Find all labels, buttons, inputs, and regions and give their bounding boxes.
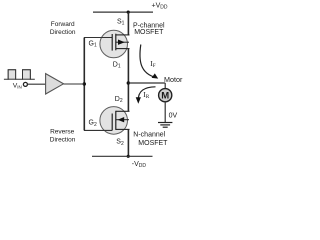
wire gate lead G2 [84,129,112,131]
wire S2 to bottom rail [127,129,129,156]
svg-text:S1: S1 [117,18,125,26]
wire motor branch vertical [164,83,166,89]
node junction dot gate bus [83,82,86,85]
transistor Q2 source stub [116,128,130,130]
op-amp driver buffer U1 [46,74,64,94]
svg-text:N-channel: N-channel [133,132,165,139]
wire gate bus vertical [83,38,85,131]
svg-text:0V: 0V [169,113,178,120]
transistor Q2 drain stub [116,110,130,112]
transistor Q1 substrate stub with P-channel arrow [116,41,129,43]
svg-text:Reverse: Reverse [50,128,75,135]
motor M1 [159,89,172,102]
wire motor branch horizontal [128,82,165,84]
transistor Q2 channel bar [115,111,117,130]
node junction dot on -VDD rail [127,155,130,158]
svg-text:G2: G2 [89,120,97,128]
svg-text:-VDD: -VDD [132,161,147,169]
svg-text:+VDD: +VDD [152,2,168,10]
input square wave signal [4,70,35,79]
svg-text:MOSFET: MOSFET [134,29,164,36]
node junction dot motor tap [127,81,130,84]
input terminal VIN [23,82,27,86]
wire S1 from rail to Q1 source [127,12,129,35]
current arrow IF forward [140,45,156,78]
svg-text:Forward: Forward [51,21,75,28]
transistor Q1 channel bar [115,34,117,51]
node junction dot on +VDD rail [127,11,130,14]
wire driver output to gate bus [64,83,85,85]
wire drain bus D1 to D2 [127,49,129,112]
transistor Q2 gate bar [111,114,113,131]
svg-text:Direction: Direction [50,29,76,36]
wire input to driver [28,83,46,85]
wire -VDD bottom rail [92,155,153,157]
svg-text:D2: D2 [115,96,123,104]
transistor Q1 source stub [116,34,130,36]
transistor Q2 N-channel MOSFET body [100,107,128,135]
current arrow IR reverse [138,87,155,101]
svg-text:G1: G1 [89,41,97,49]
wire gate lead G1 [84,37,112,39]
wire motor to ground [164,102,166,122]
svg-text:Motor: Motor [164,75,183,84]
svg-text:S2: S2 [116,139,124,147]
svg-text:M: M [161,91,169,102]
transistor Q1 gate bar [111,34,113,51]
transistor Q2 substrate stub with N-channel arrow [116,119,129,121]
ground [158,122,172,124]
transistor Q1 P-channel MOSFET body [100,30,128,58]
wire +VDD top rail [93,11,153,13]
svg-text:MOSFET: MOSFET [138,140,168,147]
svg-text:D1: D1 [113,61,121,69]
transistor Q1 drain stub [116,48,130,50]
svg-text:Direction: Direction [50,137,76,144]
